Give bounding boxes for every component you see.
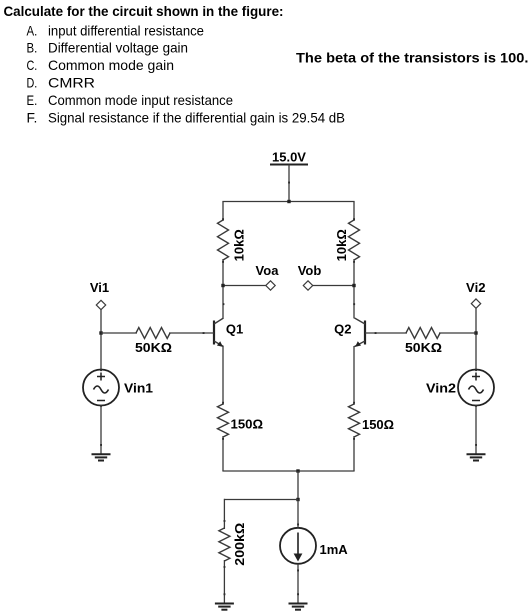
svg-text:E.: E. [27, 92, 38, 108]
resistor 10kOhm right [349, 220, 360, 260]
svg-text:150Ω: 150Ω [362, 417, 394, 432]
wire right to bottom rail [353, 436, 355, 471]
wire Vin2 to ground [475, 406, 477, 455]
svg-text:1mA: 1mA [320, 542, 349, 557]
svg-text:Differential voltage gain: Differential voltage gain [48, 40, 188, 56]
ground (200k) [215, 604, 234, 610]
wire Vin1 to ground [100, 406, 102, 455]
wire Vob stub [313, 285, 355, 287]
power supply 15.0V bar [270, 164, 308, 166]
wire 200k lower lead [223, 560, 225, 604]
resistor 50KOhm left [136, 328, 170, 339]
svg-text:Vob: Vob [298, 263, 322, 278]
wire left to bottom rail [222, 436, 224, 471]
svg-text:10kΩ: 10kΩ [231, 229, 246, 261]
node junction left collector [221, 284, 224, 287]
node Voa diamond [266, 281, 275, 290]
source Vin1 [83, 370, 153, 406]
resistor 50KOhm right [406, 328, 440, 339]
wire base lead Q2 [365, 332, 407, 334]
node junction Vi2/base [474, 331, 477, 334]
svg-text:50KΩ: 50KΩ [405, 340, 442, 355]
svg-text:Signal resistance if the diffe: Signal resistance if the differential ga… [48, 110, 345, 126]
svg-text:Calculate for the circuit show: Calculate for the circuit shown in the f… [4, 3, 284, 19]
wire base lead left [101, 332, 137, 334]
resistor 10kOhm left [218, 220, 229, 260]
svg-text:B.: B. [27, 40, 38, 56]
pin ticks [100, 182, 477, 596]
transistor Q2 [334, 318, 365, 347]
source Vin2 [426, 370, 494, 406]
wire tail drop [297, 471, 299, 500]
wire Vi1 down [100, 310, 102, 370]
resistor 150Ohm right [349, 404, 360, 437]
wire to Vi2 [439, 332, 476, 334]
node Vi2 diamond [471, 299, 480, 308]
ground (right input) [467, 454, 486, 460]
svg-text:F.: F. [27, 110, 38, 126]
resistor 200kOhm [219, 528, 230, 561]
wire base lead right [169, 332, 214, 334]
node junction tail top [296, 469, 299, 472]
svg-text:D.: D. [27, 75, 38, 91]
svg-text:Q1: Q1 [226, 322, 243, 337]
wire source to ground [297, 564, 299, 604]
wire bottom rail [222, 470, 354, 472]
wire 200k upper lead [223, 499, 225, 529]
svg-text:15.0V: 15.0V [272, 150, 306, 165]
wire Q2 emitter down [353, 346, 355, 405]
wire left branch upper lead [222, 202, 224, 222]
node junction Vi1/base [99, 331, 102, 334]
wire left branch to collector [222, 259, 224, 318]
ground (left input) [92, 454, 111, 460]
wire Voa stub [223, 285, 266, 287]
svg-text:50KΩ: 50KΩ [135, 340, 172, 355]
node junction on top rail [287, 200, 290, 203]
svg-text:Common mode gain: Common mode gain [48, 57, 174, 73]
wire right branch upper lead [353, 202, 355, 222]
svg-text:Vi2: Vi2 [466, 280, 486, 295]
wire tail to source [297, 500, 299, 528]
svg-text:Vin2: Vin2 [426, 381, 456, 396]
transistor Q1 [214, 318, 243, 347]
svg-text:10kΩ: 10kΩ [334, 229, 349, 261]
svg-text:A.: A. [27, 22, 38, 38]
svg-text:200kΩ: 200kΩ [232, 523, 247, 566]
ground (current source) [289, 604, 308, 610]
wire top rail [222, 201, 354, 203]
wire VCC drop [288, 165, 290, 202]
resistor 150Ohm left [218, 404, 229, 437]
svg-text:input differential resistance: input differential resistance [48, 22, 204, 38]
wire Vi2 down [475, 308, 477, 370]
svg-text:The beta of the transistors is: The beta of the transistors is 100. [296, 50, 529, 66]
node Vob diamond [303, 281, 312, 290]
svg-text:Common mode input resistance: Common mode input resistance [48, 92, 233, 108]
svg-text:CMRR: CMRR [48, 75, 95, 91]
svg-text:Voa: Voa [256, 263, 280, 278]
svg-text:C.: C. [27, 57, 38, 73]
svg-text:Vi1: Vi1 [90, 280, 109, 295]
wire right branch to collector [353, 259, 355, 318]
node junction tail mid [296, 498, 299, 501]
current source 1mA [280, 528, 348, 564]
node junction right collector [352, 284, 355, 287]
wire tail horizontal [224, 499, 298, 501]
node Vi1 diamond [96, 300, 105, 309]
wire Q1 emitter down [222, 346, 224, 405]
svg-text:Vin1: Vin1 [124, 381, 153, 396]
svg-text:150Ω: 150Ω [231, 417, 264, 432]
svg-text:Q2: Q2 [334, 322, 351, 337]
